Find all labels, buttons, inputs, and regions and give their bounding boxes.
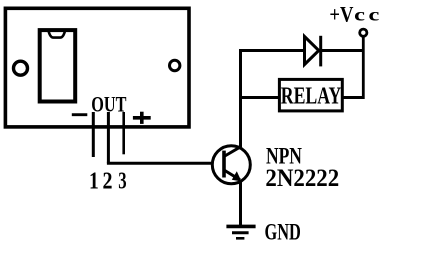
terminal +Vcc circle — [360, 29, 367, 36]
IC chip U1 body — [40, 30, 75, 101]
transistor Q1 collector stroke — [225, 147, 241, 156]
svg-text:+V: +V — [329, 3, 353, 27]
svg-text:c: c — [368, 5, 379, 25]
svg-text:c: c — [354, 5, 365, 25]
transistor Q1 emitter stroke with arrow — [225, 171, 242, 182]
wire relay left — [239, 96, 279, 99]
wire collector vertical — [239, 49, 242, 147]
svg-text:2N2222: 2N2222 — [265, 165, 339, 192]
wire diode anode horizontal — [239, 49, 305, 52]
svg-text:RELAY: RELAY — [281, 82, 342, 109]
label +Vcc — [329, 3, 379, 27]
pin 2 wire — [107, 112, 110, 163]
svg-text:3: 3 — [118, 169, 126, 194]
transistor Q1 circle — [212, 146, 250, 184]
mounting hole left — [14, 61, 28, 75]
label minus polarity — [72, 113, 88, 116]
diode D1 cathode bar — [319, 36, 322, 67]
svg-text:GND: GND — [264, 220, 300, 245]
ground symbol — [226, 226, 255, 238]
sensor module board outline — [5, 8, 189, 127]
svg-text:2: 2 — [103, 167, 113, 194]
wire base from pin2 to transistor — [107, 162, 212, 165]
label plus polarity — [133, 112, 151, 124]
wire Vcc vertical — [362, 37, 365, 99]
wire diode cathode to Vcc — [321, 49, 363, 52]
pin 3 wire — [122, 112, 125, 154]
wire emitter to ground — [239, 181, 242, 226]
svg-text:1: 1 — [89, 166, 99, 194]
transistor Q1 base bar — [222, 151, 226, 178]
IC chip pin-1 notch — [48, 30, 65, 38]
mounting hole right — [170, 60, 180, 70]
diode D1 triangle — [305, 37, 319, 65]
pin 1 wire — [92, 112, 95, 157]
wire relay right — [342, 96, 364, 99]
relay K1 box — [279, 79, 342, 111]
